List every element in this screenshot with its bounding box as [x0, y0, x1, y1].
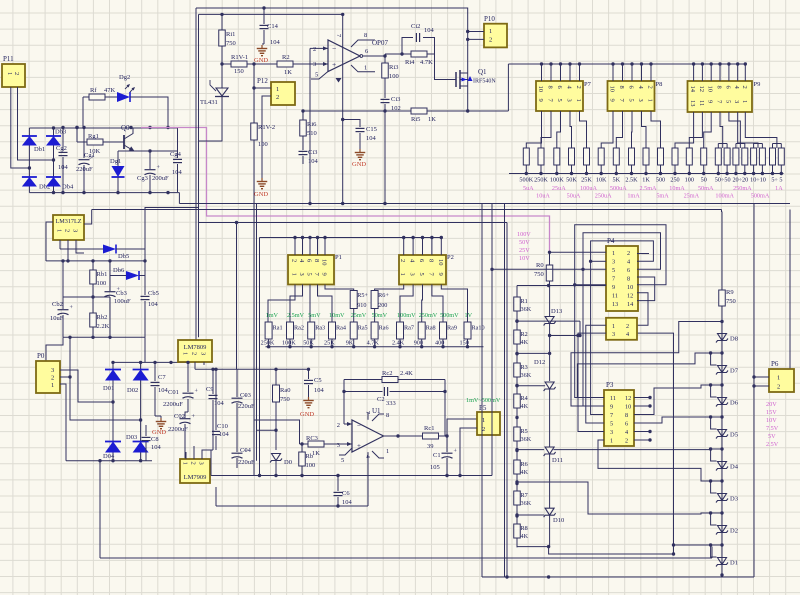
svg-text:C03: C03	[240, 392, 251, 399]
svg-text:10mV: 10mV	[329, 312, 345, 319]
svg-text:Q0: Q0	[121, 124, 130, 132]
wire mid rail upper	[179, 202, 790, 205]
svg-text:10uA: 10uA	[536, 193, 550, 200]
wire chain feed 336	[548, 334, 580, 337]
svg-text:220uF: 220uF	[238, 403, 255, 410]
svg-text:104: 104	[366, 135, 377, 142]
wire rail drop c	[504, 204, 506, 578]
svg-text:2: 2	[276, 94, 279, 101]
svg-text:20÷20: 20÷20	[732, 177, 748, 184]
svg-text:104: 104	[270, 39, 281, 46]
wire cap farm mid	[195, 368, 237, 370]
svg-text:+: +	[332, 60, 336, 69]
wire U1 output	[384, 434, 423, 437]
svg-text:10: 10	[537, 86, 544, 93]
resistor R9	[719, 210, 736, 334]
wire P0 pin2	[60, 336, 142, 422]
svg-text:5: 5	[341, 457, 344, 464]
diode chain labels	[730, 336, 739, 567]
svg-text:7: 7	[612, 276, 615, 283]
svg-text:C10: C10	[217, 423, 228, 430]
svg-text:5÷ 5: 5÷ 5	[771, 177, 782, 184]
ground for P12	[254, 178, 268, 198]
wire P6 pin1	[752, 375, 769, 378]
zener diode D11	[515, 447, 563, 508]
wire bridge2 top bus	[111, 361, 186, 364]
resistor Ri6	[300, 109, 317, 137]
wire rail right vertical	[789, 210, 791, 370]
wire rail drop a	[481, 204, 483, 578]
svg-text:104: 104	[424, 27, 435, 34]
svg-text:2.5V: 2.5V	[766, 441, 779, 448]
resistor chain R1-R8	[514, 297, 532, 540]
wire P11 pin1 to bridge	[11, 87, 31, 170]
wire LM317 bus1	[46, 259, 147, 262]
svg-text:500uA: 500uA	[610, 185, 627, 192]
svg-text:150: 150	[234, 68, 244, 75]
capacitor C14	[260, 8, 281, 46]
wire rail drop b	[491, 204, 493, 476]
wire bank box top leads	[542, 64, 746, 81]
svg-text:D11: D11	[552, 457, 563, 464]
resistor Rb	[299, 442, 316, 475]
svg-text:Rb: Rb	[306, 453, 314, 460]
svg-text:750: 750	[280, 396, 290, 403]
bank current labels magenta	[523, 185, 783, 200]
capacitor Cb3	[105, 261, 132, 337]
svg-text:8: 8	[386, 412, 389, 419]
wire top frame	[196, 6, 469, 111]
svg-text:Db4: Db4	[62, 184, 74, 191]
svg-text:5mV: 5mV	[308, 312, 321, 319]
diode Db5	[60, 245, 145, 261]
svg-text:1V: 1V	[465, 312, 473, 319]
magenta voltage labels	[517, 231, 531, 262]
ground for C5	[300, 397, 314, 418]
svg-text:1: 1	[647, 99, 654, 102]
svg-text:−: −	[332, 44, 336, 53]
svg-text:Db3: Db3	[55, 129, 66, 136]
svg-text:500K: 500K	[519, 177, 533, 184]
wire negative bus	[29, 191, 179, 204]
resistor Ri3	[382, 56, 399, 80]
svg-text:100mA: 100mA	[715, 193, 734, 200]
svg-text:100: 100	[389, 73, 399, 80]
resistor Ri5	[411, 108, 436, 123]
svg-text:R5: R5	[521, 428, 528, 435]
wire bottom long bus	[100, 461, 712, 558]
svg-text:D03: D03	[126, 434, 137, 441]
capacitor C10	[212, 368, 230, 450]
svg-text:R2: R2	[282, 54, 290, 61]
svg-text:11: 11	[612, 293, 618, 300]
svg-text:−: −	[357, 422, 361, 430]
wire P3 left riser d	[586, 325, 606, 423]
svg-text:4: 4	[364, 455, 370, 458]
svg-text:P5: P5	[479, 404, 487, 412]
svg-text:P3: P3	[606, 381, 614, 389]
magenta output wire	[141, 128, 550, 253]
wire LM317 bus3	[63, 336, 145, 339]
wire P3 row4 link	[634, 417, 711, 423]
svg-text:D13: D13	[551, 308, 562, 315]
wire P1P2 box top leads	[295, 238, 441, 256]
svg-text:P8: P8	[656, 81, 663, 88]
wire P6 pin2	[752, 384, 769, 387]
diode D04	[103, 442, 121, 461]
svg-text:104: 104	[308, 158, 319, 165]
svg-text:Db1: Db1	[34, 146, 45, 153]
svg-text:TL431: TL431	[200, 99, 218, 106]
capacitor Cb2	[50, 261, 74, 337]
svg-text:50÷50: 50÷50	[715, 177, 731, 184]
svg-text:Ra1: Ra1	[273, 325, 283, 332]
svg-text:200: 200	[378, 302, 387, 309]
svg-text:8: 8	[627, 276, 630, 283]
resistor R6+	[371, 291, 389, 323]
wire P12 pin1	[252, 64, 271, 90]
svg-text:C14: C14	[267, 23, 279, 30]
svg-text:104: 104	[148, 301, 159, 308]
svg-text:4: 4	[625, 429, 628, 436]
connector P4B	[606, 318, 637, 340]
svg-text:4.7K: 4.7K	[420, 59, 433, 66]
svg-text:10K: 10K	[596, 177, 607, 184]
wire P4 ring inner stub	[591, 260, 606, 262]
svg-text:100: 100	[258, 141, 268, 148]
capacitor C15	[341, 118, 377, 149]
svg-text:100mV: 100mV	[397, 312, 416, 319]
svg-text:47K: 47K	[104, 87, 116, 94]
svg-text:Rc2: Rc2	[382, 370, 392, 377]
wire feedback right	[444, 380, 446, 437]
diode Db2	[22, 177, 50, 191]
svg-text:D04: D04	[103, 453, 115, 460]
wire LM317 right	[84, 210, 92, 225]
svg-text:D01: D01	[103, 385, 114, 392]
svg-text:P10: P10	[484, 15, 495, 23]
svg-text:10: 10	[707, 86, 714, 93]
svg-text:10uF: 10uF	[50, 315, 64, 322]
wire feedback left	[343, 380, 345, 425]
wire P11 pin2 to bridge	[18, 87, 56, 162]
svg-text:P6: P6	[771, 360, 779, 368]
svg-text:10÷10: 10÷10	[750, 177, 766, 184]
wire LM317 bus2	[63, 284, 110, 299]
wire P4 ring outer stub	[575, 284, 606, 286]
svg-text:D2: D2	[730, 528, 738, 535]
svg-text:12: 12	[625, 395, 631, 402]
wire P1 staircase	[268, 285, 354, 323]
svg-text:2: 2	[190, 462, 197, 465]
svg-text:1: 1	[489, 28, 492, 35]
svg-text:25mV: 25mV	[351, 312, 367, 319]
svg-text:2: 2	[313, 46, 316, 53]
wire bank staircase leads	[526, 111, 781, 148]
wire tap to D5-D4	[554, 449, 711, 451]
svg-text:Ri1: Ri1	[226, 31, 235, 38]
capacitor C2	[342, 387, 446, 407]
wire zener chain	[549, 286, 551, 317]
wire R2 to pin3	[293, 63, 328, 65]
wire bank top bus	[508, 62, 747, 65]
svg-text:Ci3: Ci3	[391, 96, 400, 103]
svg-text:1: 1	[399, 273, 406, 276]
svg-text:3: 3	[72, 229, 79, 232]
svg-text:1: 1	[182, 462, 189, 465]
connector P11	[2, 55, 25, 87]
svg-text:C7: C7	[158, 374, 166, 381]
ground cap farm	[152, 416, 166, 436]
svg-text:10mA: 10mA	[669, 185, 685, 192]
svg-text:10V: 10V	[519, 255, 530, 262]
svg-text:P1: P1	[335, 254, 342, 261]
svg-text:2: 2	[399, 259, 406, 262]
svg-text:2: 2	[489, 37, 492, 44]
svg-text:3: 3	[409, 273, 416, 276]
capacitor C1	[430, 436, 458, 476]
svg-text:1: 1	[777, 375, 780, 382]
connector P10	[484, 15, 507, 47]
svg-text:Ra0: Ra0	[280, 387, 290, 394]
svg-text:5: 5	[628, 99, 635, 102]
wire P3 left riser e	[578, 333, 606, 431]
svg-text:2.4K: 2.4K	[400, 370, 413, 377]
svg-text:1: 1	[291, 273, 298, 276]
svg-text:100: 100	[97, 280, 107, 287]
svg-text:5V: 5V	[768, 433, 776, 440]
capacitor C02	[168, 412, 196, 461]
svg-text:4: 4	[627, 259, 630, 266]
svg-text:13: 13	[612, 301, 618, 308]
svg-text:Ra5: Ra5	[358, 325, 368, 332]
resistor Ri4	[385, 51, 435, 66]
capacitor Ci3	[299, 136, 319, 165]
svg-text:Ri3: Ri3	[389, 64, 398, 71]
svg-text:5: 5	[315, 72, 318, 79]
svg-text:2.5K: 2.5K	[625, 177, 638, 184]
svg-text:2: 2	[191, 352, 198, 355]
diode D03	[126, 434, 149, 453]
resistor bank Ra1-Ra10	[265, 322, 484, 347]
svg-text:4K: 4K	[521, 533, 529, 540]
wire tap to D3-D2	[515, 480, 710, 514]
svg-text:Rb2: Rb2	[97, 314, 108, 321]
wire Ra bottom bus	[266, 345, 484, 348]
svg-text:7: 7	[610, 412, 613, 419]
wire R0 to chain	[517, 284, 550, 297]
svg-text:105: 105	[430, 464, 440, 471]
svg-text:Ra10: Ra10	[472, 325, 485, 332]
svg-text:200uF: 200uF	[152, 175, 169, 182]
resistor Rf	[83, 87, 117, 100]
wire P0 pin1	[60, 384, 66, 461]
svg-text:P9: P9	[754, 81, 761, 88]
svg-text:10: 10	[437, 259, 444, 266]
svg-text:2: 2	[741, 86, 748, 89]
svg-text:50K: 50K	[566, 177, 577, 184]
wire Rc1 right	[439, 434, 449, 437]
wire positive bus	[29, 126, 177, 129]
diode chain node dots	[720, 351, 723, 546]
svg-text:3: 3	[566, 99, 573, 102]
wire R1V2 down	[253, 140, 255, 476]
svg-text:Cb5: Cb5	[148, 290, 159, 297]
svg-text:4: 4	[626, 331, 629, 338]
wire source rail	[303, 109, 508, 112]
svg-text:C1: C1	[433, 452, 441, 459]
svg-text:11: 11	[698, 100, 705, 106]
svg-text:P11: P11	[3, 55, 14, 63]
svg-text:Ra8: Ra8	[426, 325, 436, 332]
wire mid vertical c	[259, 238, 261, 476]
svg-text:8: 8	[547, 86, 554, 89]
wire rail to P6 vertical	[753, 204, 755, 578]
wire LM317 top link	[145, 208, 199, 261]
wire LM317 pins down	[60, 240, 84, 261]
wire pin2 net vertical	[384, 111, 386, 204]
svg-text:GND: GND	[300, 411, 314, 418]
resistor Ri1	[219, 14, 236, 64]
wire RC3 feed	[254, 420, 300, 444]
svg-text:1K: 1K	[284, 69, 292, 76]
svg-text:1: 1	[612, 250, 615, 257]
svg-text:6: 6	[627, 267, 630, 274]
wire R1V1 to R2	[247, 62, 277, 65]
svg-text:Ra6: Ra6	[379, 325, 389, 332]
svg-text:2.2K: 2.2K	[97, 323, 110, 330]
svg-text:C02: C02	[174, 413, 185, 420]
wire Q0 emitter	[118, 149, 152, 168]
svg-text:Ra3: Ra3	[315, 325, 325, 332]
svg-text:GND: GND	[254, 191, 268, 198]
svg-text:104: 104	[219, 431, 230, 438]
svg-text:D1: D1	[730, 560, 738, 567]
svg-text:Cg3: Cg3	[137, 175, 148, 182]
svg-text:2: 2	[627, 250, 630, 257]
wire bus3 right down	[144, 337, 146, 362]
wire bridge2 bottom bus	[66, 459, 152, 462]
svg-text:39: 39	[427, 443, 434, 450]
connector P7	[536, 81, 592, 111]
resistor Ra0	[257, 369, 291, 450]
svg-text:R9: R9	[726, 289, 734, 296]
zener diode D0	[270, 454, 292, 476]
wire P10 pin1	[468, 31, 484, 33]
svg-text:2200uF: 2200uF	[168, 426, 188, 433]
svg-text:1mV: 1mV	[266, 312, 279, 319]
wire P10 pin2	[466, 38, 484, 41]
svg-text:8: 8	[618, 86, 625, 89]
svg-text:14: 14	[627, 301, 633, 308]
capacitor Ci2	[402, 23, 435, 54]
svg-text:D12: D12	[534, 359, 545, 366]
wire P3 right c	[634, 385, 711, 415]
svg-text:750: 750	[726, 298, 736, 305]
capacitor Cg2	[56, 128, 69, 193]
svg-text:104: 104	[172, 169, 183, 176]
wire bridge right column	[52, 126, 55, 194]
svg-text:36K: 36K	[521, 500, 532, 507]
connector P3	[604, 381, 634, 446]
svg-text:1mV~500mV: 1mV~500mV	[466, 397, 501, 404]
svg-text:9: 9	[321, 273, 328, 276]
wire P5 pin2	[460, 428, 477, 476]
zener diode D12	[515, 359, 555, 447]
wire tap 353	[515, 352, 551, 355]
zener diode Dg1	[110, 158, 125, 192]
capacitor Ci3b	[381, 78, 401, 112]
diode Dg2 LED	[117, 74, 135, 102]
svg-text:104: 104	[342, 499, 353, 506]
svg-text:2: 2	[51, 375, 54, 382]
svg-text:1: 1	[6, 72, 13, 75]
svg-text:Ri5: Ri5	[411, 116, 420, 123]
connector P12	[257, 77, 295, 105]
svg-text:910: 910	[357, 302, 366, 309]
wire chain anode hooks	[709, 351, 722, 557]
TL431	[200, 80, 229, 127]
svg-text:2.5mA: 2.5mA	[639, 185, 657, 192]
diode Db6	[110, 261, 145, 280]
Ra value labels	[261, 340, 469, 347]
svg-text:10K: 10K	[89, 148, 101, 155]
wire pin2 feedback	[309, 48, 311, 203]
wire OP07 output	[360, 54, 387, 57]
capacitor C8	[142, 425, 162, 461]
svg-text:3: 3	[298, 273, 305, 276]
wire chain verticals	[515, 311, 518, 547]
svg-text:2: 2	[64, 229, 71, 232]
wire P4 ring mid riser	[581, 233, 660, 406]
wire P4 pin1 feed	[550, 251, 607, 253]
capacitor C03	[232, 369, 256, 412]
svg-text:R0: R0	[536, 262, 544, 269]
ground for C15	[352, 149, 366, 168]
wire Rf branch	[82, 97, 84, 128]
svg-text:RC3: RC3	[306, 435, 318, 442]
wire LM317 left	[46, 222, 53, 261]
svg-text:11: 11	[610, 395, 616, 402]
zener diode D13	[515, 308, 581, 381]
wire OP07 supply vertical	[335, 14, 343, 203]
svg-text:C6: C6	[342, 490, 350, 497]
svg-text:R5+: R5+	[357, 292, 368, 299]
svg-text:8: 8	[364, 32, 367, 39]
svg-text:R1V-1: R1V-1	[231, 54, 248, 61]
resistor Rb2	[90, 297, 110, 337]
svg-text:4K: 4K	[521, 469, 529, 476]
svg-text:25mA: 25mA	[684, 193, 700, 200]
wire LM317 to P0	[46, 337, 63, 361]
svg-text:2: 2	[575, 86, 582, 89]
svg-text:220uF: 220uF	[76, 166, 93, 173]
zener diode D10	[515, 508, 564, 546]
resistor R1V-1	[222, 54, 248, 75]
svg-text:3: 3	[610, 429, 613, 436]
capacitor Cg4	[170, 128, 183, 193]
svg-text:12: 12	[627, 293, 633, 300]
svg-text:9: 9	[437, 273, 444, 276]
wire mid vertical b	[256, 204, 258, 461]
diode D01	[103, 370, 121, 393]
svg-text:8: 8	[625, 412, 628, 419]
capacitor C6	[334, 476, 353, 507]
svg-text:1: 1	[51, 382, 54, 389]
svg-text:Ri6: Ri6	[307, 121, 317, 128]
svg-text:36K: 36K	[521, 436, 532, 443]
svg-text:2200uF: 2200uF	[163, 401, 183, 408]
